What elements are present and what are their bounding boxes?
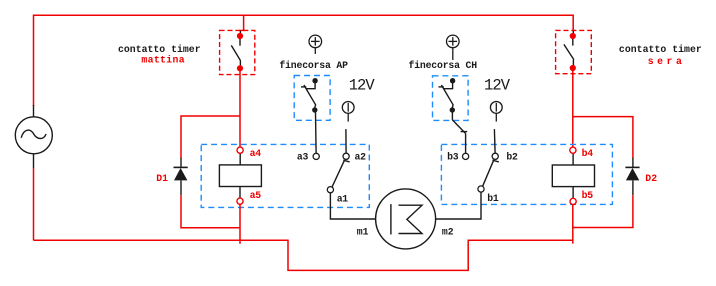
node dot AP bottom — [312, 107, 317, 112]
svg-text:finecorsa CH: finecorsa CH — [409, 60, 478, 71]
svg-text:12V: 12V — [484, 77, 511, 95]
svg-text:a2: a2 — [355, 151, 367, 162]
relay B group box — [441, 144, 612, 204]
12V minus terminal (left) — [342, 102, 354, 122]
svg-text:m1: m1 — [357, 227, 369, 238]
blade b1-b2 — [483, 161, 494, 187]
contact a3 — [313, 153, 319, 159]
wire stub above mattina top dot — [239, 31, 241, 34]
node dot mattina bottom — [237, 65, 243, 71]
terminal b5 — [570, 198, 576, 204]
wire a1 to motor m1 — [330, 193, 375, 219]
svg-text:b2: b2 — [506, 151, 518, 162]
svg-text:m2: m2 — [442, 227, 454, 238]
wire mattina drop from top bus — [243, 15, 245, 30]
finecorsa CH switch — [439, 83, 454, 108]
contatto timer sera box — [556, 30, 592, 73]
svg-text:b5: b5 — [582, 190, 594, 201]
svg-text:finecorsa AP: finecorsa AP — [279, 60, 348, 71]
wire minus to a2 — [345, 129, 347, 153]
svg-text:D2: D2 — [645, 173, 657, 184]
finecorsa AP box — [294, 76, 330, 121]
svg-text:12V: 12V — [349, 77, 376, 95]
contact b1 — [478, 186, 484, 192]
wire AP to a3 — [315, 113, 318, 154]
finecorsa CH box — [433, 76, 469, 121]
wire b5 drop to bus — [572, 205, 574, 244]
wire bottom bus — [34, 240, 574, 270]
node dot CH bottom — [450, 107, 455, 112]
contatto timer mattina box — [220, 30, 255, 74]
12V plus terminal (CH side) — [447, 35, 460, 60]
terminal a4 — [237, 147, 243, 153]
diode D1 — [174, 158, 188, 195]
terminal b4 — [570, 147, 576, 153]
relay A group box — [201, 144, 369, 207]
wire top bus (AC top to timer sera) — [34, 15, 574, 106]
timer mattina switch S1 — [231, 39, 240, 67]
relay coil KA — [219, 154, 261, 199]
svg-text:contatto timer: contatto timer — [619, 44, 702, 55]
node dot AP top — [312, 78, 317, 83]
svg-text:mattina: mattina — [141, 54, 184, 65]
wire minus to b2 — [493, 129, 496, 153]
terminal a5 — [237, 198, 243, 204]
wire CH to b3 (jog with tick) — [452, 113, 467, 153]
svg-text:a4: a4 — [250, 148, 262, 159]
finecorsa AP switch — [301, 83, 316, 108]
wire D1 top branch — [181, 116, 240, 158]
wire b1 to motor m2 — [436, 192, 481, 219]
node dot mattina top — [237, 33, 243, 39]
wire a5 drop to bus — [239, 204, 241, 244]
contact a1 — [327, 187, 333, 193]
svg-text:b4: b4 — [582, 148, 594, 159]
diode D2 — [625, 158, 639, 195]
svg-text:contatto timer: contatto timer — [118, 44, 201, 55]
wire mattina to a4 — [239, 71, 241, 147]
blade a1-a2 — [332, 161, 344, 187]
node dot CH top — [450, 78, 455, 83]
svg-text:sera: sera — [648, 56, 686, 67]
svg-text:b3: b3 — [447, 151, 459, 162]
12V plus terminal (AP side) — [309, 35, 322, 54]
blade tip tick b — [493, 160, 499, 162]
timer sera switch S2 — [564, 31, 574, 66]
wire D2 top branch — [573, 117, 633, 159]
svg-text:b1: b1 — [487, 193, 499, 204]
contact b2 — [492, 153, 498, 159]
svg-text:D1: D1 — [156, 173, 168, 184]
relay coil KB — [552, 154, 594, 199]
contact b3 — [463, 153, 469, 159]
node dot sera top — [570, 33, 576, 39]
node dot sera bottom — [570, 65, 576, 71]
wire AC bottom to bus — [33, 168, 35, 240]
svg-text:a1: a1 — [337, 193, 349, 204]
svg-text:a3: a3 — [297, 151, 309, 162]
wire sera to b4 — [572, 71, 574, 147]
12V minus terminal (right) — [490, 102, 502, 122]
motor M1 — [376, 189, 436, 249]
wire D1 bottom branch — [181, 195, 240, 228]
wire box-edge link mattina — [239, 29, 245, 31]
blade tip tick a — [343, 160, 349, 162]
svg-text:a5: a5 — [250, 190, 262, 201]
wire D2 bottom branch — [573, 195, 633, 227]
contact a2 — [343, 153, 349, 159]
AC source G1 — [15, 105, 52, 168]
